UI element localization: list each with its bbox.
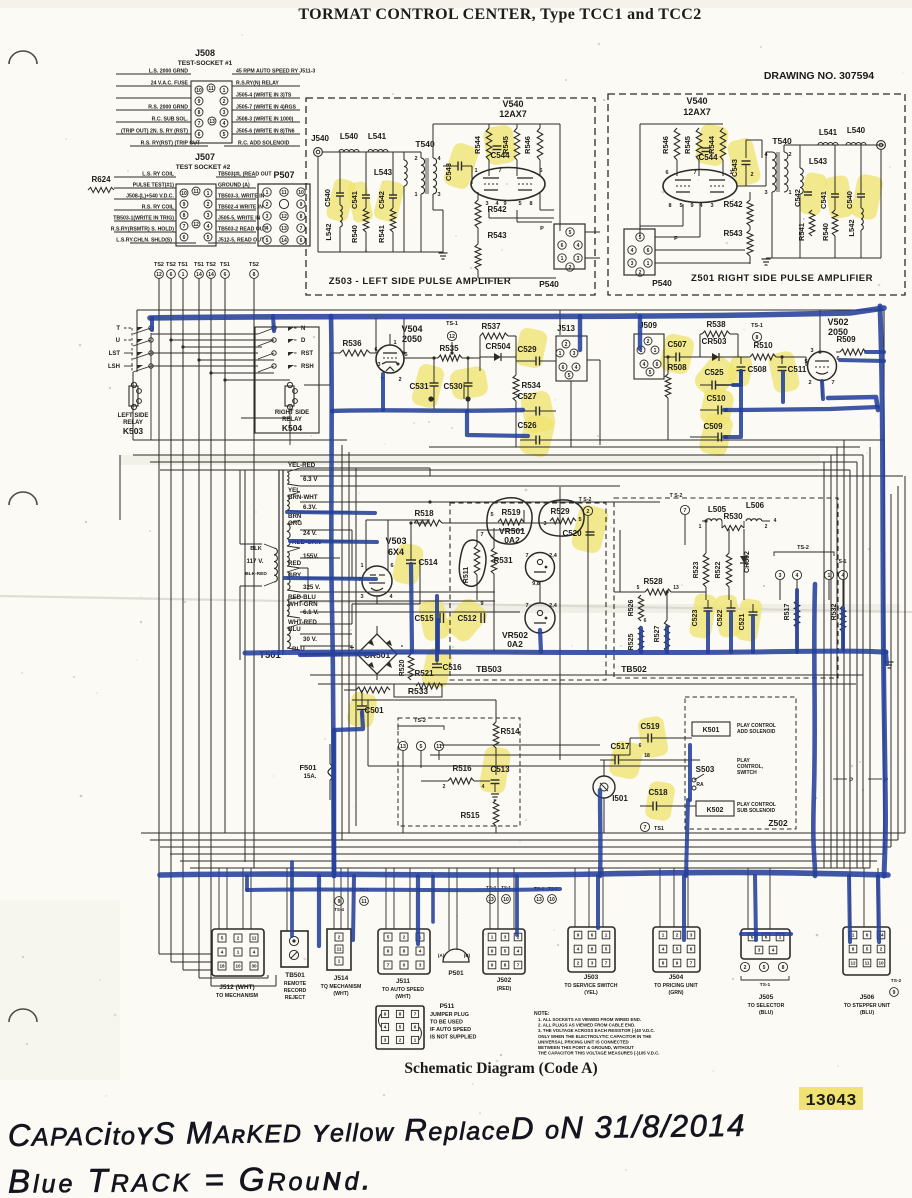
svg-text:CR502: CR502 [744, 551, 751, 573]
svg-text:11: 11 [193, 189, 199, 195]
svg-text:J502: J502 [497, 977, 512, 984]
svg-text:7: 7 [517, 963, 520, 968]
svg-text:C542: C542 [793, 189, 802, 207]
highlight [691, 351, 741, 402]
svg-text:TS-2: TS-2 [414, 718, 426, 724]
blue stub left [150, 318, 154, 330]
svg-text:8: 8 [782, 965, 785, 971]
svg-text:13043: 13043 [805, 1092, 856, 1111]
primary winding [274, 548, 277, 582]
blue Z502 vertical [598, 790, 603, 876]
svg-text:10: 10 [549, 897, 555, 903]
svg-text:TS2: TS2 [249, 262, 259, 268]
svg-text:TQ MECHANISM: TQ MECHANISM [321, 984, 362, 990]
ladder bus wires [141, 832, 905, 834]
svg-text:L541: L541 [819, 128, 838, 137]
svg-text:TEST SOCKET #2: TEST SOCKET #2 [176, 164, 231, 171]
svg-text:Schematic Diagram (Code A): Schematic Diagram (Code A) [404, 1060, 597, 1077]
highlight [658, 332, 695, 375]
svg-text:8: 8 [591, 947, 594, 952]
svg-text:L506: L506 [746, 501, 765, 510]
blue drops J506 [849, 876, 850, 942]
blue stub K504 [273, 316, 274, 331]
svg-text:R543: R543 [487, 231, 507, 240]
svg-text:8: 8 [183, 213, 186, 219]
svg-text:7: 7 [387, 963, 390, 968]
svg-text:2: 2 [207, 202, 210, 208]
svg-text:2: 2 [338, 935, 341, 940]
svg-text:18: 18 [644, 753, 650, 759]
connector P540 [554, 224, 585, 269]
svg-text:12AX7: 12AX7 [683, 107, 711, 117]
svg-text:2,4: 2,4 [549, 553, 558, 559]
svg-text:5: 5 [223, 132, 226, 138]
svg-text:L542: L542 [324, 223, 333, 240]
svg-text:5: 5 [504, 949, 507, 954]
svg-text:L543: L543 [374, 168, 393, 177]
svg-text:TO SERVICE SWITCH: TO SERVICE SWITCH [564, 983, 617, 989]
svg-text:4: 4 [419, 949, 422, 954]
svg-text:12: 12 [281, 214, 287, 220]
svg-text:CR503: CR503 [702, 337, 727, 346]
svg-text:L540: L540 [847, 126, 866, 135]
blue ground bus top [150, 308, 884, 318]
svg-text:S503: S503 [696, 765, 715, 774]
punch hole bottom [9, 1009, 37, 1022]
svg-text:C508: C508 [747, 365, 767, 374]
svg-text:C518: C518 [648, 788, 668, 797]
connector J511 [378, 929, 430, 974]
connector P540 right [624, 229, 655, 275]
relay K503 dashed link [131, 328, 133, 372]
svg-text:TS1: TS1 [194, 262, 204, 268]
highlight [644, 780, 676, 822]
resistor R511 circled [459, 540, 486, 586]
highlight [417, 598, 451, 643]
bottom frame [883, 310, 885, 854]
highlight [373, 179, 406, 224]
svg-text:11: 11 [252, 936, 257, 941]
svg-text:Z502: Z502 [768, 818, 788, 828]
svg-text:TO PRICING UNIT: TO PRICING UNIT [654, 983, 699, 989]
J508 right wires [232, 73, 300, 75]
svg-text:(B): (B) [464, 953, 471, 958]
svg-text:R545: R545 [501, 136, 510, 154]
svg-text:3: 3 [377, 362, 380, 368]
svg-text:J511: J511 [396, 978, 410, 985]
svg-text:K504: K504 [282, 423, 303, 433]
blue C525 C508 [733, 371, 741, 385]
svg-text:V540: V540 [686, 96, 707, 106]
wire plate rail right [640, 123, 723, 125]
terminal T TS1 [640, 822, 649, 831]
svg-text:9: 9 [300, 202, 303, 208]
highlight [688, 592, 717, 639]
connector P501 [443, 949, 469, 962]
svg-text:5: 5 [518, 201, 521, 207]
svg-text:4: 4 [223, 121, 226, 127]
svg-text:RED: RED [288, 560, 302, 567]
svg-text:5: 5 [387, 935, 390, 940]
svg-text:1: 1 [414, 1038, 417, 1043]
svg-text:R624: R624 [91, 175, 111, 184]
svg-text:J508: J508 [195, 48, 215, 58]
supply feed wires [300, 467, 430, 469]
blue R509 links [866, 350, 884, 354]
relay K502 [696, 801, 734, 816]
svg-text:2: 2 [398, 377, 401, 383]
blue drops to J511 [416, 876, 420, 944]
svg-text:6: 6 [170, 272, 173, 278]
svg-text:C531: C531 [409, 382, 429, 391]
svg-text:4: 4 [772, 948, 775, 953]
blue R527 drop [665, 627, 669, 652]
svg-text:1: 1 [393, 340, 396, 346]
dashed enclosure Z501 [608, 94, 905, 295]
svg-text:4: 4 [643, 362, 646, 368]
highlight [410, 362, 445, 409]
svg-text:3: 3 [690, 933, 693, 938]
svg-text:R541: R541 [377, 225, 386, 243]
svg-text:TEST-SOCKET #1: TEST-SOCKET #1 [178, 60, 233, 67]
svg-text:1: 1 [662, 933, 665, 938]
svg-text:11: 11 [361, 899, 367, 905]
svg-text:6: 6 [656, 362, 659, 368]
svg-text:J505: J505 [759, 994, 774, 1001]
svg-text:BLK-RED: BLK-RED [245, 571, 267, 577]
highlight [325, 177, 357, 223]
svg-text:24 V.: 24 V. [303, 530, 317, 537]
svg-text:C514: C514 [418, 558, 438, 567]
svg-text:5: 5 [568, 373, 571, 379]
svg-text:J505-5, WRITE IN: J505-5, WRITE IN [218, 216, 261, 222]
svg-text:13: 13 [673, 585, 679, 591]
svg-text:0A2: 0A2 [507, 639, 523, 649]
svg-text:GROUND (A): GROUND (A) [218, 183, 250, 189]
relay K501 [692, 722, 730, 736]
svg-text:2. ALL PLUGS AS VIEWED FROM CA: 2. ALL PLUGS AS VIEWED FROM CABLE END. [538, 1023, 635, 1028]
svg-text:5: 5 [637, 585, 640, 591]
svg-text:6: 6 [198, 132, 201, 138]
svg-text:2: 2 [750, 172, 753, 178]
blue stub V504 [381, 374, 385, 410]
svg-text:C544: C544 [698, 153, 718, 162]
svg-text:BLU: BLU [288, 626, 301, 633]
svg-text:4: 4 [266, 226, 269, 232]
svg-text:TS1: TS1 [178, 262, 188, 268]
highlight [767, 350, 801, 395]
blue VR502 drop [540, 630, 541, 652]
ground symbol right bus [885, 661, 894, 663]
svg-text:C515: C515 [414, 614, 434, 623]
svg-text:4: 4 [662, 947, 665, 952]
svg-text:TS1: TS1 [654, 826, 664, 832]
svg-text:C517: C517 [610, 742, 630, 751]
svg-text:C509: C509 [703, 422, 723, 431]
highlight [478, 745, 512, 795]
svg-text:T S-2: T S-2 [579, 497, 592, 503]
svg-text:4: 4 [631, 248, 634, 254]
svg-text:ADD SOLENOID: ADD SOLENOID [737, 729, 776, 735]
svg-text:14: 14 [281, 238, 287, 244]
svg-text:3: 3 [223, 110, 226, 116]
svg-text:13: 13 [536, 897, 542, 903]
J507 left wires [114, 176, 176, 178]
svg-text:1: 1 [561, 256, 564, 262]
svg-text:TO AUTO SPEED: TO AUTO SPEED [382, 987, 424, 993]
svg-text:R515: R515 [460, 811, 480, 820]
svg-text:I501: I501 [612, 794, 628, 803]
blue mid bus hook right [886, 652, 887, 664]
tube VR501 socket [526, 553, 555, 582]
svg-text:8: 8 [668, 203, 671, 209]
svg-text:3: 3 [419, 963, 422, 968]
svg-text:R523: R523 [693, 562, 700, 579]
svg-text:RECORD: RECORD [284, 988, 307, 994]
wire rows below bus [310, 674, 863, 676]
blue C508 down [739, 371, 743, 410]
svg-text:5: 5 [207, 235, 210, 241]
svg-text:K501: K501 [703, 727, 720, 734]
svg-text:C543: C543 [730, 159, 739, 177]
svg-text:(RED): (RED) [497, 986, 512, 992]
svg-text:1: 1 [474, 168, 477, 174]
svg-text:C526: C526 [517, 421, 537, 430]
svg-text:3. THE VOLTAGE ACROSS EACH RES: 3. THE VOLTAGE ACROSS EACH RESISTOR (-)4… [538, 1028, 655, 1033]
blue C514 vertical [411, 564, 412, 652]
svg-text:6: 6 [224, 272, 227, 278]
svg-text:YEL: YEL [288, 487, 300, 494]
blue drops to J512 [317, 876, 321, 946]
primary wires [240, 543, 262, 545]
dashed box TB502 [614, 498, 838, 678]
blue branch CR501 [300, 654, 375, 655]
svg-text:2: 2 [880, 947, 883, 952]
svg-text:8: 8 [529, 201, 532, 207]
connector J503 [568, 927, 615, 972]
svg-text:N: N [301, 326, 305, 332]
svg-text:5: 5 [578, 517, 581, 523]
connector J502 [483, 929, 525, 974]
wire output rail [784, 144, 818, 146]
svg-text:D: D [301, 338, 306, 344]
svg-text:9: 9 [384, 1012, 387, 1017]
svg-text:RA: RA [696, 782, 704, 788]
blue right edge vertical [880, 306, 886, 876]
svg-text:C530: C530 [443, 382, 463, 391]
svg-text:C540: C540 [845, 191, 854, 209]
svg-text:8: 8 [852, 947, 855, 952]
blue branch C526 [467, 411, 528, 436]
svg-text:7: 7 [183, 224, 186, 230]
svg-text:R.S.RY(RSMTR) S. HOLD): R.S.RY(RSMTR) S. HOLD) [111, 227, 174, 233]
svg-text:JUMPER PLUG: JUMPER PLUG [430, 1012, 469, 1018]
svg-text:5: 5 [420, 744, 423, 750]
svg-text:9: 9 [690, 203, 693, 209]
svg-text:(TRIP OUT) 2N. S. RY (RST): (TRIP OUT) 2N. S. RY (RST) [121, 129, 188, 135]
svg-text:R546: R546 [661, 136, 670, 154]
svg-text:2: 2 [765, 524, 768, 530]
svg-text:8: 8 [300, 214, 303, 220]
svg-text:J507: J507 [195, 152, 215, 162]
svg-text:5: 5 [569, 230, 572, 236]
tube V540 envelope [471, 168, 545, 201]
highlight [482, 124, 518, 167]
svg-text:8: 8 [399, 1012, 402, 1017]
svg-text:TO STEPPER UNIT: TO STEPPER UNIT [844, 1003, 891, 1009]
svg-text:5: 5 [605, 947, 608, 952]
svg-text:7: 7 [693, 170, 696, 176]
svg-text:10: 10 [503, 897, 509, 903]
ground symbol [439, 252, 448, 254]
svg-text:2: 2 [676, 933, 679, 938]
svg-text:3: 3 [360, 594, 363, 600]
highlight [694, 123, 730, 168]
svg-text:14: 14 [208, 272, 214, 278]
svg-text:1: 1 [414, 192, 417, 198]
svg-text:4: 4 [575, 365, 578, 371]
svg-text:PULSE TEST(#1): PULSE TEST(#1) [133, 183, 174, 189]
svg-text:R.S. RY(RST) (TRIP CUT: R.S. RY(RST) (TRIP CUT [141, 141, 201, 147]
svg-text:TO BE USED: TO BE USED [430, 1020, 463, 1026]
svg-text:2: 2 [266, 202, 269, 208]
svg-text:R520: R520 [399, 660, 406, 677]
svg-text:L540: L540 [340, 132, 359, 141]
svg-text:6.3 V: 6.3 V [303, 476, 318, 483]
highlight [391, 542, 425, 587]
svg-text:0: 0 [403, 963, 406, 968]
svg-text:LST: LST [109, 351, 121, 357]
svg-text:J512 (WHT): J512 (WHT) [219, 984, 254, 991]
highlight [513, 327, 548, 370]
svg-text:C523: C523 [692, 610, 699, 627]
svg-text:R.C. SUB SOL.: R.C. SUB SOL. [152, 117, 189, 123]
svg-text:7: 7 [605, 961, 608, 966]
svg-text:6: 6 [491, 949, 494, 954]
relay K504 coil [285, 386, 294, 406]
svg-text:TS-1: TS-1 [446, 321, 458, 327]
blue R525 drop [639, 628, 643, 652]
svg-text:R533: R533 [408, 686, 429, 696]
svg-text:2: 2 [587, 509, 590, 515]
svg-text:6: 6 [639, 743, 642, 749]
svg-text:J505-6 (WRITE IN 8)TN6: J505-6 (WRITE IN 8)TN6 [236, 129, 295, 135]
blue tall right inner [813, 584, 815, 876]
relay K504 box [255, 327, 319, 433]
svg-text:13: 13 [209, 119, 215, 125]
svg-text:1: 1 [360, 563, 363, 569]
svg-text:10: 10 [878, 961, 884, 966]
svg-text:TS-4: TS-4 [334, 907, 344, 912]
svg-text:30 V.: 30 V. [303, 636, 317, 643]
svg-text:2: 2 [565, 342, 568, 348]
connector drop wires [218, 868, 220, 929]
highlight [824, 174, 855, 220]
svg-text:7: 7 [414, 1012, 417, 1017]
svg-text:8: 8 [198, 110, 201, 116]
svg-text:TB502: TB502 [621, 664, 647, 674]
bundle staircase into J512 [159, 953, 212, 955]
svg-text:TO SELECTOR: TO SELECTOR [748, 1003, 785, 1009]
punch hole top [9, 51, 37, 64]
svg-text:7: 7 [690, 961, 693, 966]
svg-text:8: 8 [253, 272, 256, 278]
svg-text:1: 1 [182, 272, 185, 278]
svg-text:4: 4 [482, 784, 485, 790]
highlight [699, 386, 736, 427]
svg-text:K502: K502 [707, 807, 724, 814]
blue R532 drop [841, 608, 845, 648]
resistor R529 circled [539, 500, 584, 536]
highlight [519, 389, 557, 434]
svg-text:P540: P540 [539, 279, 559, 289]
svg-text:R542: R542 [723, 200, 743, 209]
svg-text:RED-BLU: RED-BLU [288, 594, 316, 601]
tube VR502 socket [525, 603, 555, 633]
svg-text:L.S. RY COIL: L.S. RY COIL [142, 172, 175, 178]
relay K504 contacts [272, 326, 276, 330]
svg-text:J540: J540 [311, 134, 329, 143]
svg-text:6: 6 [647, 248, 650, 254]
svg-text:TS2: TS2 [206, 262, 216, 268]
svg-text:6: 6 [866, 933, 869, 938]
svg-text:2: 2 [788, 152, 791, 158]
svg-text:J503: J503 [584, 974, 599, 981]
svg-text:0A2: 0A2 [504, 535, 520, 545]
svg-text:THE CAPACITOR THIS VOLTAGE MEA: THE CAPACITOR THIS VOLTAGE MEASURES (-)1… [538, 1051, 660, 1056]
transformer T501 core [278, 470, 280, 655]
right bundle verticals [823, 462, 825, 868]
svg-text:2: 2 [808, 380, 811, 386]
svg-text:10: 10 [196, 88, 202, 94]
svg-text:ORG: ORG [288, 520, 302, 527]
blue branch RED-GRN [290, 541, 377, 542]
svg-text:TO MECHANISM: TO MECHANISM [216, 993, 259, 999]
dashed box TB503 [450, 503, 606, 680]
connector J505 [741, 929, 790, 959]
svg-text:TS1: TS1 [220, 262, 230, 268]
blue mid ground bus [245, 651, 886, 653]
svg-text:C520: C520 [562, 529, 582, 538]
tube V502 [808, 352, 837, 381]
svg-text:R536: R536 [342, 339, 362, 348]
svg-text:R530: R530 [723, 512, 743, 521]
svg-text:1: 1 [207, 191, 210, 197]
svg-text:5: 5 [266, 238, 269, 244]
svg-text:6: 6 [183, 235, 186, 241]
svg-text:CR504: CR504 [486, 342, 511, 351]
svg-text:10: 10 [298, 190, 304, 196]
svg-text:1: 1 [828, 573, 831, 579]
bridge rectifier CR501 [357, 634, 397, 674]
resistor R533 label box [394, 684, 442, 697]
svg-text:(WHT): (WHT) [395, 994, 411, 1000]
svg-text:R540: R540 [821, 223, 830, 241]
punch hole middle [9, 492, 37, 505]
svg-text:3: 3 [573, 351, 576, 357]
svg-text:4: 4 [577, 947, 580, 952]
svg-text:P511: P511 [440, 1003, 455, 1010]
svg-text:3: 3 [710, 203, 713, 209]
connector J504 [653, 927, 700, 972]
svg-text:1: 1 [699, 524, 702, 530]
svg-text:C542: C542 [377, 191, 386, 209]
svg-text:5: 5 [221, 936, 224, 941]
svg-text:TS-1: TS-1 [760, 982, 771, 988]
svg-text:2: 2 [577, 961, 580, 966]
blue C515 drop [436, 620, 440, 652]
svg-text:1: 1 [559, 351, 562, 357]
